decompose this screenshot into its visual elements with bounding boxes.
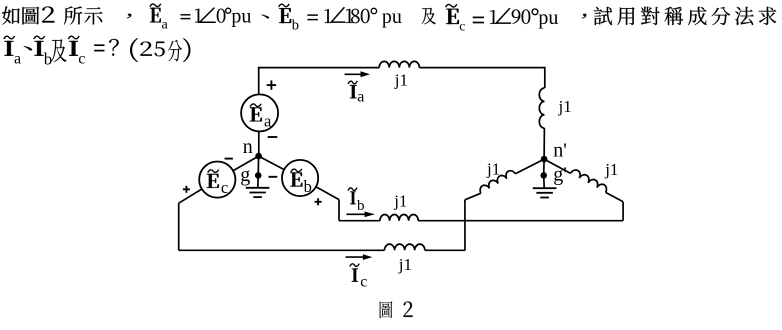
minus terminal source b — [269, 176, 278, 178]
formula E_c tilde — [446, 4, 457, 7]
svg-text:n: n — [243, 136, 253, 158]
wire c rail left — [179, 249, 385, 251]
wire right coil to corner — [606, 192, 624, 201]
svg-text:b: b — [304, 177, 312, 196]
svg-text:c: c — [78, 50, 85, 67]
formula E_b degree sign — [371, 8, 376, 13]
wire b rail left — [339, 220, 380, 222]
svg-text:j1: j1 — [558, 97, 572, 116]
svg-text:j1: j1 — [393, 192, 407, 211]
plus terminal source c — [183, 188, 190, 190]
wire b rail right — [418, 220, 623, 222]
ground symbol g-prime — [533, 187, 557, 189]
svg-text:pu: pu — [382, 6, 402, 28]
wire n-prime to g-prime — [543, 159, 545, 175]
svg-text:n': n' — [553, 140, 567, 162]
formula E_a digit 0 — [217, 9, 226, 23]
current label I_a — [350, 85, 357, 98]
node n-prime junction dot — [541, 156, 548, 163]
line2 close paren — [183, 38, 190, 62]
wire n to source b — [259, 156, 285, 170]
svg-text:c: c — [221, 178, 228, 197]
wire source a top — [258, 67, 260, 94]
wire source c to corner — [179, 189, 202, 203]
formula E_a digit 1 — [195, 9, 202, 23]
inductor j1 phase b — [380, 214, 418, 220]
wire n to g — [257, 156, 259, 175]
wire left coil to corner — [465, 193, 481, 200]
voltage source E_b circle — [282, 160, 318, 196]
line2 open paren — [130, 38, 138, 62]
formula E_c equals — [473, 16, 484, 18]
problem text: digit 2 — [42, 6, 54, 22]
line2 I_b bold I — [34, 41, 43, 56]
svg-text:g: g — [240, 164, 250, 186]
svg-text:b: b — [292, 18, 299, 34]
wire n to source c — [233, 156, 259, 171]
line2 dunhao — [24, 46, 32, 50]
problem text: suo — [64, 6, 82, 24]
plus terminal source a — [267, 84, 276, 86]
problem text line1 tail: shi yong dui cheng cheng fen fa qiu — [594, 7, 613, 25]
ground symbol g — [246, 187, 270, 189]
svg-text:pu: pu — [231, 5, 251, 27]
caption figure tu — [380, 301, 393, 318]
line2 I_a tilde — [4, 36, 15, 39]
svg-text:j1: j1 — [394, 71, 408, 90]
current arrow I_a — [345, 73, 362, 75]
line2 I_c tilde — [68, 36, 79, 39]
formula E_a angle symbol — [200, 8, 216, 23]
wire n-prime to right coil — [544, 159, 570, 173]
wire left vertical — [178, 203, 180, 250]
node g-prime junction dot — [540, 172, 547, 179]
svg-text:b: b — [357, 198, 365, 214]
problem text: comma — [127, 14, 132, 19]
formula E_a tilde — [150, 4, 161, 7]
svg-text:a: a — [162, 17, 169, 32]
line2 question mark — [109, 39, 119, 56]
voltage source E_a label — [250, 107, 262, 121]
formula E_c digits 90 — [512, 9, 521, 23]
line2 fen (points) — [168, 40, 182, 62]
text ji (and) line1 — [422, 8, 436, 25]
inductor j1 phase a — [379, 61, 419, 67]
wire top rail right segment — [419, 67, 544, 69]
wire source b to corner — [316, 187, 339, 200]
current arrow I_b — [346, 213, 365, 215]
minus terminal source c — [225, 158, 233, 160]
formula E_b equals — [307, 14, 318, 16]
formula E_c degree sign — [532, 9, 538, 15]
line2 I_a bold I — [4, 41, 13, 56]
punctuation dunhao line1 — [261, 15, 269, 19]
current arrow I_c — [346, 256, 364, 258]
wire load right vertical — [622, 202, 624, 221]
svg-text:a: a — [357, 89, 364, 106]
current label I_b — [350, 191, 356, 204]
formula E_b tilde — [279, 4, 290, 7]
svg-text:b: b — [44, 50, 53, 69]
node g junction dot — [255, 172, 262, 179]
formula E_a bold E — [150, 8, 161, 23]
voltage source E_c circle — [199, 162, 235, 198]
wire g to ground — [257, 175, 259, 187]
wire load left vertical — [464, 200, 466, 251]
wire b vertical — [338, 200, 340, 221]
svg-text:j1: j1 — [604, 160, 618, 179]
caption digit 2 — [404, 301, 413, 316]
punctuation comma 2 line1 — [582, 14, 586, 19]
current label I_c — [352, 268, 358, 281]
inductor j1 phase c — [385, 244, 425, 250]
wire top rail left segment — [259, 67, 380, 69]
inductor j1 load right — [571, 170, 607, 192]
formula E_a degree sign — [226, 8, 231, 13]
voltage source E_a circle — [241, 94, 278, 131]
svg-text:a: a — [14, 50, 21, 67]
line2 I_b tilde — [34, 36, 45, 39]
wire c rail right — [425, 249, 465, 251]
svg-text:a: a — [264, 112, 272, 131]
wire source a bottom — [258, 131, 260, 156]
formula E_c digit 1 — [490, 10, 497, 24]
svg-text:j1: j1 — [398, 255, 412, 274]
line2 equals — [94, 44, 104, 46]
svg-text:pu: pu — [538, 7, 558, 29]
minus terminal source a — [268, 136, 278, 138]
wire n-prime to left coil — [515, 159, 544, 174]
formula E_b angle symbol — [331, 7, 345, 22]
line2 ji (and) — [51, 39, 66, 62]
voltage source E_c label — [207, 174, 219, 188]
problem text: tu (figure) — [22, 7, 39, 25]
wire right side drop — [544, 67, 546, 88]
svg-text:j1: j1 — [486, 160, 500, 179]
voltage source E_b label — [290, 172, 302, 186]
formula E_b digit 1 — [325, 9, 332, 23]
formula E_b digits 180 — [346, 9, 353, 23]
plus terminal source b — [315, 201, 322, 203]
node n junction dot — [255, 153, 262, 160]
problem text: ru (as) — [2, 6, 20, 24]
wire inductor to n-prime — [543, 128, 545, 159]
svg-text:c: c — [459, 19, 465, 34]
formula E_b bold E — [279, 8, 291, 23]
problem text: shi (shown) — [84, 7, 102, 24]
line2 digits 25 — [140, 42, 151, 56]
line2 I_c bold I — [69, 41, 78, 56]
formula E_a equals — [181, 14, 191, 16]
formula E_c angle symbol — [496, 8, 511, 23]
inductor j1 load phase a vertical — [539, 88, 544, 128]
formula E_c bold E — [446, 9, 459, 24]
wire g-prime to ground — [543, 175, 546, 188]
svg-text:c: c — [360, 274, 367, 291]
inductor j1 load left — [480, 171, 515, 194]
